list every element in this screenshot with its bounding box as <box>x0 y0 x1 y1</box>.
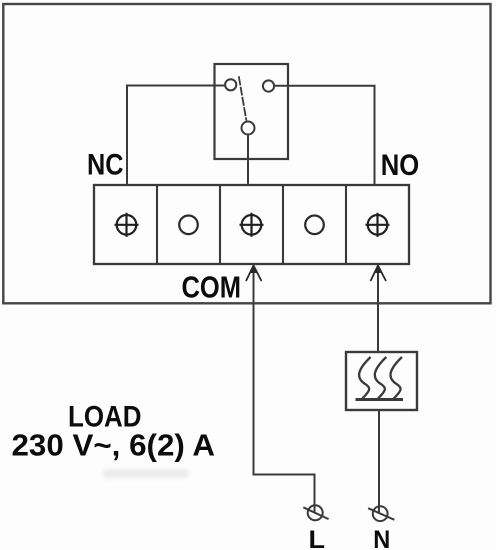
terminal block divider 1-2 <box>156 185 158 264</box>
terminal L slash <box>303 507 328 519</box>
terminal 2 hole <box>179 216 198 235</box>
heater E1 box <box>346 352 417 410</box>
wire NO terminal down to heater <box>377 265 379 351</box>
terminal 4 hole <box>305 216 324 235</box>
heater element squiggle 1 <box>359 357 370 398</box>
terminal block divider 3-4 <box>282 185 284 264</box>
terminal block body <box>94 185 409 264</box>
svg-text:NO: NO <box>381 149 420 182</box>
terminal block divider 2-3 <box>219 185 221 264</box>
terminal N slash <box>368 508 394 520</box>
heater element squiggle 2 <box>375 357 386 398</box>
svg-text:NC: NC <box>87 148 124 181</box>
control unit enclosure <box>3 4 490 303</box>
arrow into COM terminal <box>246 266 262 282</box>
wire relay COM contact to COM terminal <box>247 135 249 184</box>
terminal L circle <box>308 505 323 520</box>
terminal block divider 4-5 <box>345 185 347 264</box>
relay NC contact <box>225 79 236 90</box>
faint scan ghost artifact <box>103 469 189 478</box>
terminal 5 screw (NO) <box>366 213 390 237</box>
terminal N circle <box>373 506 388 521</box>
heater base bar <box>356 398 404 401</box>
svg-text:L: L <box>309 526 326 550</box>
arrow into NO terminal <box>371 266 387 282</box>
relay NO contact <box>263 80 274 91</box>
wire NC terminal to relay NC contact <box>127 86 225 185</box>
wire heater to N terminal <box>378 410 380 514</box>
wire COM terminal down to L junction <box>254 265 315 513</box>
terminal 3 screw (COM) <box>240 213 264 237</box>
heater element squiggle 3 <box>391 357 402 398</box>
svg-text:COM: COM <box>182 269 242 304</box>
relay U1 box <box>215 64 289 159</box>
svg-text:230 V~, 6(2) A: 230 V~, 6(2) A <box>12 428 215 462</box>
relay COM contact <box>242 122 255 135</box>
wire relay NO contact to NO terminal <box>274 86 374 184</box>
terminal 1 screw (NC) <box>115 213 139 237</box>
svg-text:N: N <box>373 526 390 550</box>
relay switch arm <box>239 76 247 120</box>
